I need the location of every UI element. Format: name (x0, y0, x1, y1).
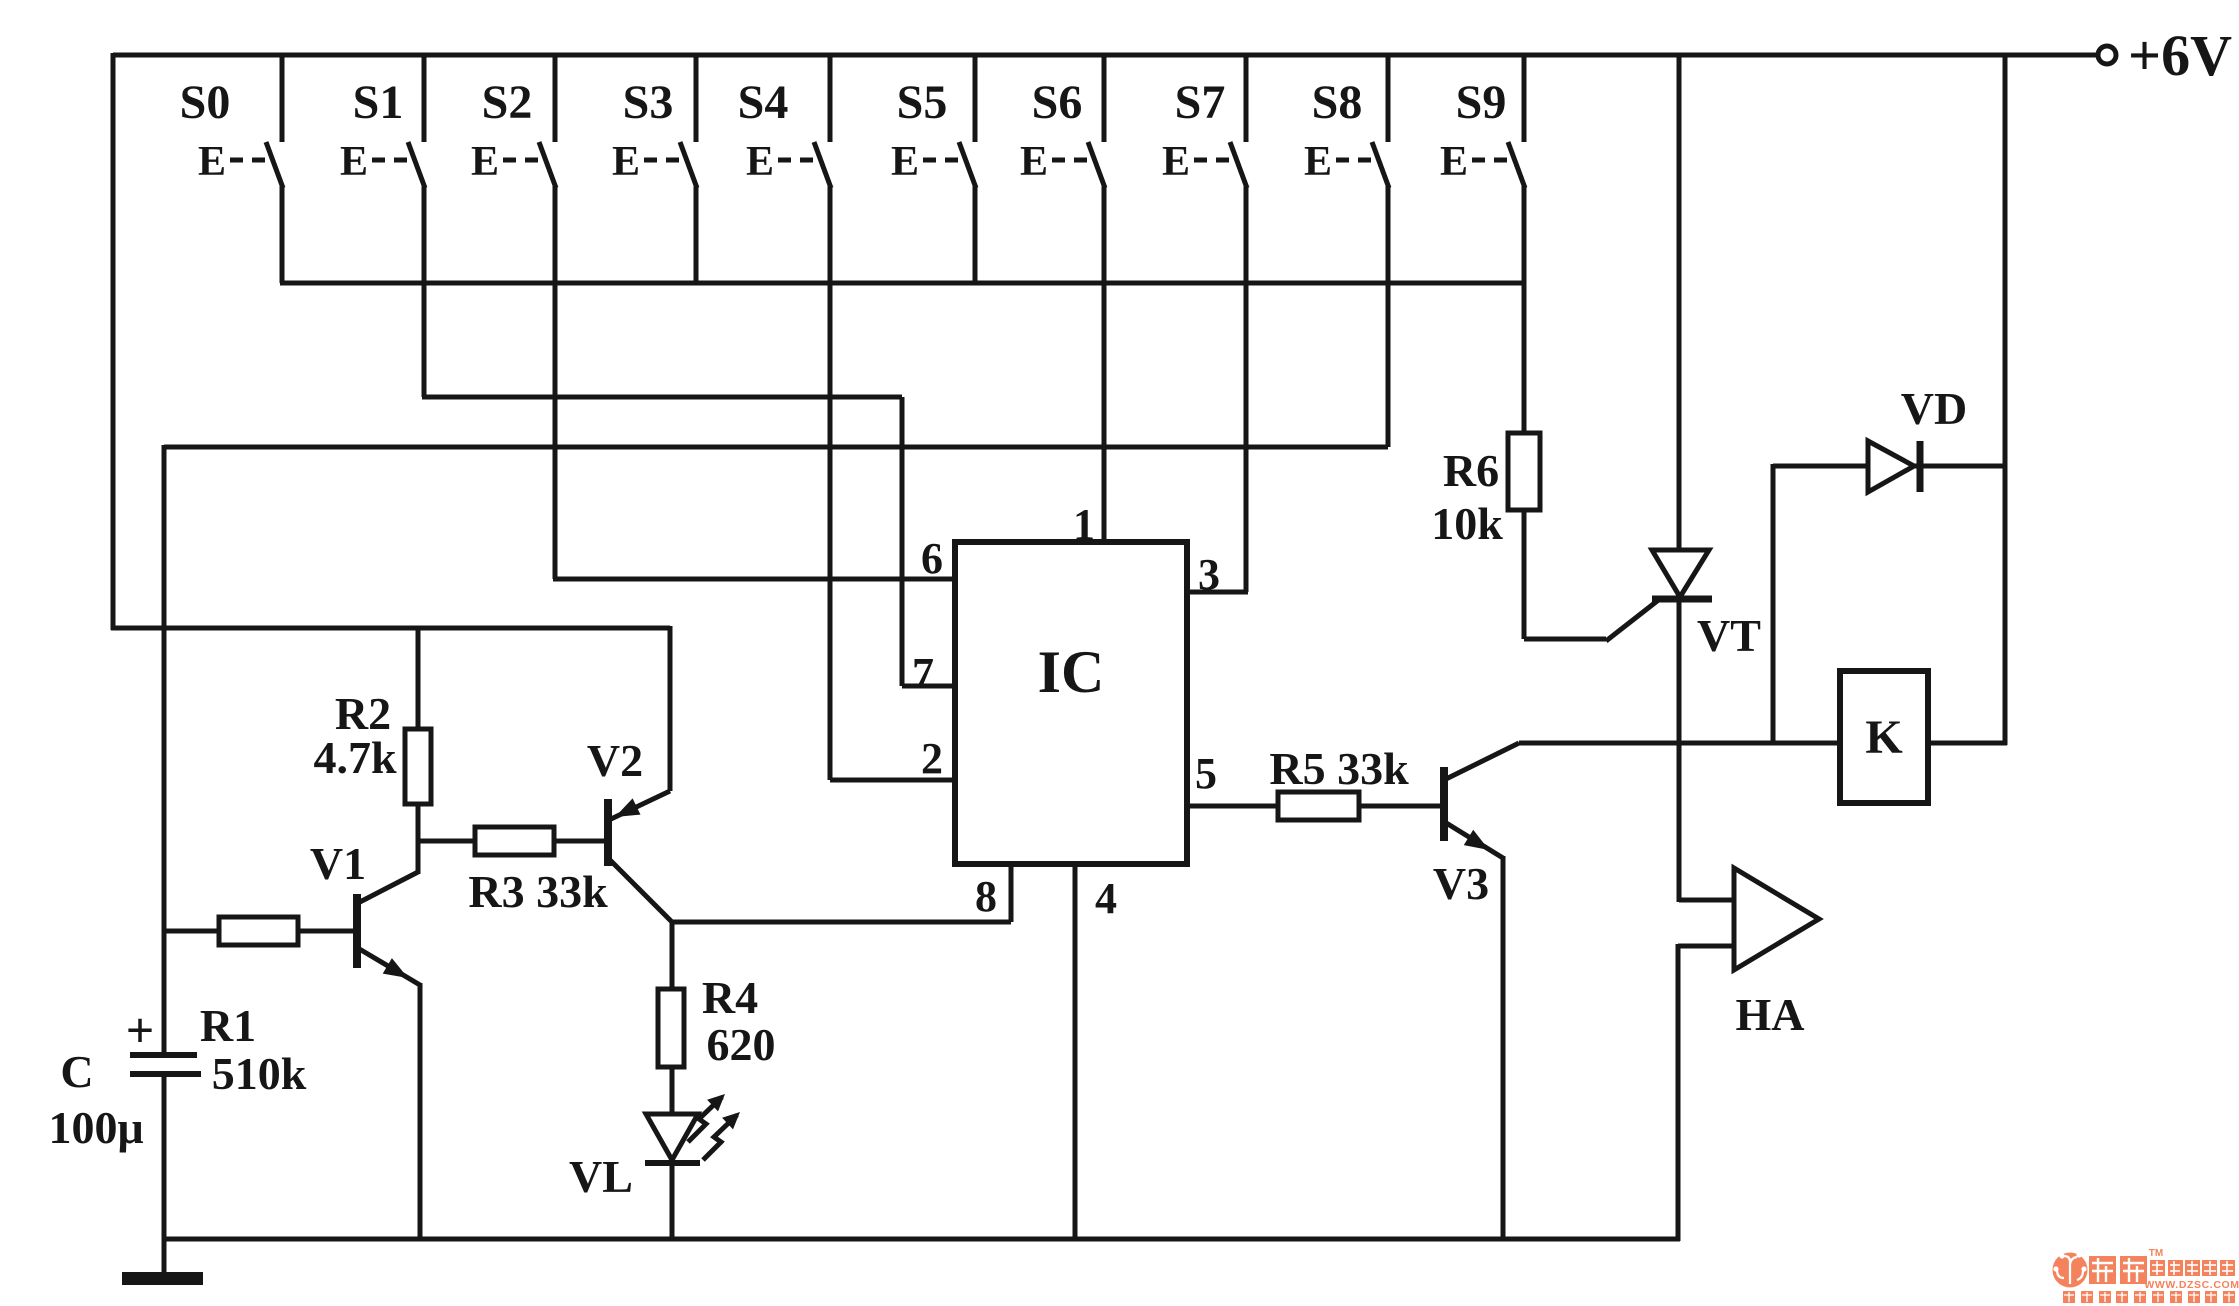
svg-text:K: K (1865, 711, 1902, 764)
IC pin 4 wire to ground rail (1073, 864, 1078, 1241)
svg-text:VD: VD (1901, 383, 1967, 434)
resistor R2 body (405, 729, 431, 804)
svg-text:+6V: +6V (2128, 23, 2232, 88)
svg-text:S7: S7 (1175, 76, 1226, 129)
diode VD triangle (1868, 441, 1914, 492)
svg-text:S6: S6 (1032, 76, 1083, 129)
+6V label (2128, 23, 2232, 88)
resistor R3 body (475, 827, 554, 855)
LED VL cathode bar (645, 1160, 700, 1166)
wire +6V rail down to K (2003, 53, 2008, 745)
resistor R6 body (1508, 433, 1540, 510)
transistor V2 emitter wire (610, 860, 672, 922)
transistor V1 base wire (298, 929, 354, 934)
svg-text:E: E (891, 139, 919, 185)
svg-text:10k: 10k (1431, 498, 1503, 549)
wire S8-bus left drop to R1/C (162, 445, 167, 1057)
switch S2 (pushbutton, with actuator label E) (471, 53, 556, 579)
relay K box (1840, 671, 1928, 803)
wire R6 to VT gate (1524, 510, 1661, 641)
IC pin 5 wire (1187, 804, 1278, 809)
resistor R1 body (219, 917, 298, 945)
capacitor C plates (130, 1055, 201, 1074)
thyristor VT cathode wire to HA (1679, 601, 1734, 902)
switch S0 (pushbutton, with actuator label E) (180, 53, 283, 283)
transistor V2 label (587, 735, 643, 786)
svg-text:VT: VT (1697, 610, 1761, 661)
IC pin 5 label (1195, 749, 1217, 798)
IC label (1038, 639, 1105, 705)
IC pin 1 label (1073, 500, 1095, 549)
svg-text:E: E (1304, 139, 1332, 185)
resistor R1 left wire (162, 929, 219, 934)
svg-text:S5: S5 (897, 76, 948, 129)
transistor V3 label (1433, 858, 1489, 909)
svg-text:S2: S2 (482, 76, 533, 129)
transistor V3 collector wire (1444, 743, 1840, 780)
svg-text:VL: VL (569, 1151, 633, 1202)
svg-text:7: 7 (912, 649, 934, 698)
IC pin 6 label (921, 534, 943, 583)
resistor R2 label (313, 688, 397, 783)
IC pin 8 label (975, 872, 997, 921)
svg-text:V2: V2 (587, 735, 643, 786)
svg-text:E: E (746, 139, 774, 185)
op-amp IC box (955, 542, 1187, 864)
svg-text:R4: R4 (702, 972, 758, 1023)
wire S4 to IC pin 2 (830, 778, 955, 783)
wire V2 emitter to IC pin 8 (672, 920, 1011, 925)
switch S3 (pushbutton, with actuator label E) (612, 53, 697, 283)
svg-text:S8: S8 (1312, 76, 1363, 129)
thyristor VT anode wire from +6V rail (1677, 53, 1682, 552)
transistor V2 collector wire from +6V (611, 626, 670, 819)
IC pin 2 label (921, 734, 943, 783)
wire bus S8 long return (node B) (164, 445, 1388, 450)
svg-text:R1: R1 (200, 1000, 256, 1051)
sounder HA lower wire to ground rail (1678, 944, 1736, 1241)
svg-text:HA: HA (1736, 989, 1805, 1040)
diode VD label (1901, 383, 1967, 434)
svg-text:8: 8 (975, 872, 997, 921)
svg-text:2: 2 (921, 734, 943, 783)
IC pin 4 label (1095, 874, 1117, 923)
transistor V1 base bar (353, 894, 361, 968)
svg-text:IC: IC (1038, 639, 1105, 705)
transistor V3 emitter wire with arrow (1443, 821, 1503, 1241)
capacitor C label (48, 1046, 143, 1153)
svg-text:4.7k: 4.7k (313, 732, 397, 783)
switch S1 (pushbutton, with actuator label E) (340, 53, 425, 397)
IC pin 8 wire (1009, 864, 1014, 922)
IC pin 7 label (912, 649, 934, 698)
relay K label (1865, 711, 1902, 764)
svg-text:+: + (126, 1002, 155, 1058)
svg-text:E: E (1440, 139, 1468, 185)
svg-text:C: C (60, 1046, 93, 1097)
LED VL triangle (646, 1114, 698, 1160)
wire S2 to IC pin 6 (553, 577, 955, 582)
wire S7 to IC pin 3 (1187, 590, 1248, 595)
resistor R4 body (658, 989, 684, 1067)
svg-text:V3: V3 (1433, 858, 1489, 909)
resistor R6 label (1431, 445, 1503, 549)
diode VD right wire (1914, 464, 2005, 469)
+6V supply rail wire (113, 53, 2097, 58)
svg-text:V1: V1 (310, 838, 366, 889)
wire left edge from +6V rail (111, 53, 116, 630)
watermark logo (2053, 1248, 2239, 1303)
svg-text:3: 3 (1198, 550, 1220, 599)
svg-text:E: E (471, 139, 499, 185)
svg-text:4: 4 (1095, 874, 1117, 923)
svg-text:620: 620 (707, 1019, 776, 1070)
switch S6 (pushbutton, with actuator label E) (1020, 53, 1105, 542)
wire bus S0/S3/S5/S9 to R6 (node A) (280, 281, 1524, 286)
diode VD left wire (1773, 464, 1868, 469)
wire VD anode down to relay line (1771, 464, 1776, 745)
wire to V2 collector (111, 626, 670, 631)
svg-text:5: 5 (1195, 749, 1217, 798)
ground rail wire (162, 1237, 1680, 1242)
svg-text:E: E (1020, 139, 1048, 185)
transistor V2 base bar (604, 799, 612, 866)
capacitor C polarity + (126, 1002, 155, 1058)
switch S8 (pushbutton, with actuator label E) (1304, 53, 1389, 447)
diode VD cathode bar (1917, 441, 1924, 492)
svg-text:WWW.DZSC.COM: WWW.DZSC.COM (2144, 1279, 2239, 1291)
svg-text:E: E (1162, 139, 1190, 185)
IC pin 3 label (1198, 550, 1220, 599)
resistor R1 right wire (V1 base) (298, 929, 354, 934)
svg-text:E: E (612, 139, 640, 185)
switch S9 (pushbutton, with actuator label E) (1440, 53, 1525, 433)
svg-text:S4: S4 (738, 76, 789, 129)
svg-text:S9: S9 (1456, 76, 1507, 129)
ground (122, 1272, 203, 1285)
svg-text:S3: S3 (623, 76, 674, 129)
resistor R3 left wire (416, 839, 475, 844)
+6V terminal (2098, 46, 2116, 64)
svg-text:1: 1 (1073, 500, 1095, 549)
svg-text:R3 33k: R3 33k (468, 866, 608, 917)
switch S7 (pushbutton, with actuator label E) (1162, 53, 1247, 592)
thyristor VT label (1697, 610, 1761, 661)
sounder HA label (1736, 989, 1805, 1040)
transistor V1 collector wire (356, 872, 418, 904)
resistor R5 right wire (V3 base) (1359, 804, 1441, 809)
resistor R3 label (468, 866, 608, 917)
svg-text:S1: S1 (353, 76, 404, 129)
relay K right wire (1928, 741, 2007, 746)
svg-text:100μ: 100μ (48, 1102, 143, 1153)
thyristor VT cathode bar (1652, 596, 1712, 603)
capacitor C bottom wire (162, 1074, 167, 1274)
resistor R4 label (702, 972, 776, 1070)
resistor R1 label (200, 1000, 307, 1099)
sounder HA triangle (1734, 868, 1819, 970)
svg-text:510k: 510k (212, 1048, 307, 1099)
svg-text:E: E (340, 139, 368, 185)
svg-text:R5 33k: R5 33k (1269, 743, 1409, 794)
svg-text:S0: S0 (180, 76, 231, 129)
transistor V3 base bar (1440, 767, 1448, 841)
LED VL label (569, 1151, 633, 1202)
svg-text:6: 6 (921, 534, 943, 583)
transistor V1 label (310, 838, 366, 889)
svg-text:R6: R6 (1443, 445, 1499, 496)
wire bus S1 to IC pin 7 (422, 397, 955, 686)
resistor R2 top wire (416, 626, 421, 729)
wire V2 emitter down to R4 (670, 920, 675, 989)
switch S5 (pushbutton, with actuator label E) (891, 53, 976, 283)
thyristor VT triangle (1652, 550, 1709, 597)
svg-text:E: E (198, 139, 226, 185)
wire R4 to LED VL (670, 1067, 675, 1116)
switch S4 (pushbutton, with actuator label E) (738, 53, 831, 780)
resistor R2 bottom wire (416, 804, 421, 874)
wire LED VL to ground rail (670, 1163, 675, 1241)
resistor R5 label (1269, 743, 1409, 794)
resistor R3 right wire (V2 base) (554, 839, 605, 844)
transistor V1 emitter wire with arrow (356, 947, 420, 1241)
svg-text:TM: TM (2149, 1248, 2163, 1259)
LED VL light arrows (688, 1094, 740, 1160)
resistor R5 body (1278, 792, 1359, 820)
